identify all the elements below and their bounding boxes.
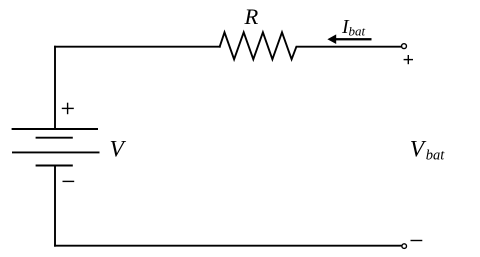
svg-text:bat: bat xyxy=(426,148,446,164)
svg-text:bat: bat xyxy=(349,24,366,39)
svg-text:V: V xyxy=(110,137,127,163)
svg-text:R: R xyxy=(244,4,259,29)
svg-text:V: V xyxy=(410,136,427,162)
